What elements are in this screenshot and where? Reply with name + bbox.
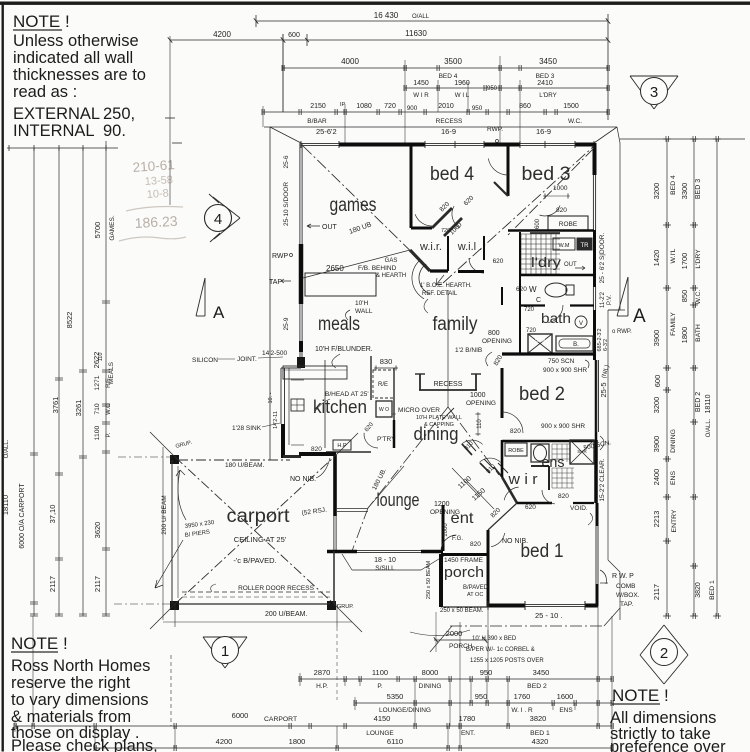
carport diagonal corner extensions [150, 432, 175, 457]
dim row 2150 1080 720 900 2010 950 860 1500 [263, 111, 608, 113]
carport beams [178, 459, 290, 461]
svg-text:1960: 1960 [454, 80, 470, 87]
wir diagonal corner wall [410, 250, 430, 271]
svg-text:950: 950 [472, 105, 483, 112]
svg-text:3200: 3200 [652, 183, 661, 200]
svg-text:820: 820 [510, 428, 521, 435]
svg-text:1255 x 1205 POSTS OVER: 1255 x 1205 POSTS OVER [470, 658, 544, 664]
svg-text:25-9: 25-9 [283, 317, 290, 330]
svg-text:BED 2: BED 2 [695, 392, 702, 412]
svg-text:P.: P. [106, 432, 112, 437]
svg-text:25-5: 25-5 [599, 382, 608, 397]
svg-text:1000: 1000 [553, 185, 568, 192]
svg-text:L'DRY: L'DRY [539, 92, 557, 99]
svg-text:720: 720 [524, 307, 535, 313]
svg-text:2400: 2400 [652, 469, 661, 486]
roller door recess [182, 591, 330, 593]
svg-text:1780: 1780 [459, 714, 476, 723]
kitchen bottom wall [299, 452, 336, 456]
svg-text:18 - 10: 18 - 10 [374, 557, 396, 564]
fblunder bench [283, 366, 347, 379]
svg-text:BED 1: BED 1 [530, 730, 550, 737]
bed1 bottom wall [488, 604, 525, 608]
svg-text:200 U/ BEAM: 200 U/ BEAM [161, 495, 168, 534]
svg-text:25-6: 25-6 [283, 155, 290, 168]
svg-text:ROBE: ROBE [508, 448, 524, 454]
svg-text:18110: 18110 [1, 495, 10, 515]
svg-text:w i r: w i r [507, 471, 537, 488]
bottom dim row4 [95, 747, 612, 749]
svg-text:250 x 50 BEAM.: 250 x 50 BEAM. [440, 608, 484, 614]
svg-text:NOTE !: NOTE ! [612, 686, 669, 705]
carport posts [170, 455, 179, 464]
svg-text:CEILING AT 25': CEILING AT 25' [234, 535, 287, 544]
svg-text:lounge: lounge [377, 490, 420, 510]
svg-text:11-2'2: 11-2'2 [600, 291, 606, 308]
right dims vertical lines [666, 139, 668, 616]
svg-text:1700: 1700 [680, 253, 689, 270]
svg-text:REF. DETAIL: REF. DETAIL [422, 291, 458, 297]
marker circle 1 [203, 636, 247, 638]
svg-text:850: 850 [680, 290, 689, 303]
svg-text:ENT.: ENT. [461, 730, 475, 737]
kitchen wall oven [376, 401, 392, 417]
kitchen bench and HP [324, 360, 326, 448]
svg-text:18110: 18110 [705, 394, 712, 413]
svg-text:860: 860 [519, 103, 531, 110]
svg-text:2117: 2117 [93, 576, 102, 592]
svg-text:4: 4 [214, 211, 222, 228]
right exterior wall [593, 143, 597, 175]
svg-text:OPENING: OPENING [466, 400, 496, 407]
svg-text:CARPORT: CARPORT [264, 716, 297, 723]
svg-text:186.23: 186.23 [134, 213, 178, 231]
svg-text:TAP.: TAP. [620, 601, 633, 608]
svg-text:R W. P: R W. P [612, 573, 634, 580]
wir walls [502, 477, 517, 503]
svg-text:O/ALL.: O/ALL. [4, 439, 10, 458]
svg-text:O/ALL.: O/ALL. [706, 418, 712, 437]
svg-text:37,10: 37,10 [48, 505, 57, 524]
wall under wir wil [448, 270, 484, 272]
svg-text:3900: 3900 [652, 436, 661, 453]
svg-text:F/B. BEHIND: F/B. BEHIND [358, 265, 397, 272]
wall games/bed4 [410, 146, 413, 228]
svg-text:830: 830 [380, 357, 393, 366]
svg-text:25-10 S/DOOR: 25-10 S/DOOR [283, 182, 290, 226]
svg-text:90.: 90. [103, 122, 126, 140]
wall wc/bath [520, 305, 594, 307]
svg-text:200 U/BEAM.: 200 U/BEAM. [265, 611, 307, 618]
ens shower [570, 440, 594, 464]
marker circle 2 [640, 625, 664, 655]
porch dim 2000 [434, 639, 487, 641]
dim row 4200 extension [170, 39, 283, 41]
bed2 door [502, 412, 523, 433]
svg-text:2650: 2650 [326, 264, 344, 273]
svg-text:l'dry: l'dry [531, 255, 561, 270]
svg-text:ENS: ENS [559, 707, 573, 714]
svg-text:GRUP.: GRUP. [337, 604, 354, 610]
silicon joint block [297, 357, 305, 368]
svg-text:Please check plans,: Please check plans, [11, 737, 158, 752]
dining lounge big diagonal [368, 407, 448, 508]
svg-text:DINING: DINING [670, 429, 677, 453]
svg-text:W.I'L: W.I'L [670, 248, 677, 263]
svg-text:3820: 3820 [530, 714, 547, 723]
top exterior wall [301, 142, 339, 144]
bottom vertical connectors [414, 679, 416, 726]
svg-text:1500: 1500 [563, 103, 579, 110]
svg-text:1' B.O.E. HEARTH.: 1' B.O.E. HEARTH. [420, 283, 472, 289]
svg-text:BED 4: BED 4 [439, 73, 458, 80]
right dims top line [620, 138, 745, 140]
svg-text:W I L: W I L [455, 92, 470, 99]
svg-text:10'H F/BLUNDER.: 10'H F/BLUNDER. [315, 346, 373, 353]
svg-text:16-9: 16-9 [441, 127, 456, 136]
svg-text:2213: 2213 [652, 511, 661, 528]
svg-text:600: 600 [653, 375, 662, 388]
svg-text:B.: B. [573, 342, 579, 348]
svg-text:W.O: W.O [106, 403, 112, 415]
svg-text:NO NIB.: NO NIB. [502, 538, 528, 545]
svg-text:Ross North Homes: Ross North Homes [11, 657, 150, 675]
svg-text:1271: 1271 [94, 375, 101, 390]
svg-text:1100: 1100 [372, 668, 388, 677]
carport eaves offset [162, 447, 164, 620]
svg-text:reserve the right: reserve the right [11, 674, 131, 692]
svg-text:1760: 1760 [514, 692, 531, 701]
carport connector verticals [174, 604, 176, 627]
svg-text:B/BAR: B/BAR [307, 118, 327, 125]
lounge west wall [333, 455, 337, 516]
svg-text:bath: bath [541, 311, 571, 326]
left exterior wall [299, 143, 301, 244]
svg-text:Unless otherwise: Unless otherwise [13, 32, 139, 50]
svg-text:620: 620 [525, 504, 536, 511]
svg-text:1000: 1000 [443, 523, 449, 537]
svg-text:720: 720 [526, 328, 537, 334]
svg-text:R/E: R/E [378, 382, 388, 388]
svg-text:FAMILY: FAMILY [670, 312, 677, 336]
svg-text:25 - 10 .: 25 - 10 . [535, 611, 563, 620]
svg-text:4320: 4320 [532, 737, 549, 746]
carport diagonals [175, 457, 334, 604]
ldry wm tr boxes [553, 238, 575, 250]
kitchen pantry [364, 433, 378, 448]
svg-text:720: 720 [441, 228, 450, 234]
svg-text:950: 950 [487, 86, 498, 92]
svg-text:1600: 1600 [557, 692, 574, 701]
svg-text:JOINT.: JOINT. [237, 356, 257, 363]
svg-text:TAP: TAP [269, 279, 282, 286]
svg-text:1080: 1080 [356, 103, 372, 110]
bed3 ldry diagonal [508, 148, 594, 235]
bed3 left wall [507, 146, 510, 196]
dim row 11630 [283, 39, 608, 41]
svg-text:750 SCN: 750 SCN [548, 358, 575, 365]
kitchen bay window [281, 367, 301, 369]
svg-text:1800: 1800 [680, 327, 689, 344]
svg-text:950: 950 [475, 692, 488, 701]
dim row 4000 3500 3450 [283, 67, 608, 69]
bottom dim row1 [300, 678, 612, 680]
svg-text:preference over: preference over [610, 738, 726, 752]
svg-text:1000: 1000 [470, 392, 486, 399]
svg-text:COMB: COMB [616, 583, 636, 590]
svg-text:5700: 5700 [93, 222, 102, 239]
svg-text:1800: 1800 [289, 737, 306, 746]
svg-text:B/PAVED.: B/PAVED. [463, 585, 490, 591]
svg-text:1'28 SINK: 1'28 SINK [232, 425, 262, 432]
svg-text:bed 3: bed 3 [522, 164, 571, 185]
bottom dim row2 [355, 702, 612, 704]
svg-text:820: 820 [558, 493, 569, 500]
svg-text:EXTERNAL: EXTERNAL [13, 105, 100, 123]
vertical connectors top dims [404, 60, 406, 143]
svg-text:VOID.: VOID. [570, 505, 588, 512]
svg-text:11630: 11630 [405, 29, 427, 38]
svg-text:3761: 3761 [51, 397, 60, 414]
svg-text:2150: 2150 [310, 103, 326, 110]
svg-text:S/SILL: S/SILL [375, 565, 395, 572]
bed1 walls [488, 503, 517, 530]
eaves outline right [617, 127, 620, 143]
svg-text:meals: meals [318, 314, 360, 335]
svg-text:8522: 8522 [65, 312, 74, 329]
svg-text:RECESS: RECESS [434, 381, 463, 388]
svg-text:LOUNGE/DINING: LOUNGE/DINING [379, 707, 431, 714]
pencil strokes [126, 207, 183, 212]
svg-text:games: games [330, 195, 377, 216]
svg-text:14'2-500: 14'2-500 [262, 350, 287, 357]
svg-text:w.i.l .: w.i.l . [457, 241, 482, 253]
games roof diagonal [303, 146, 428, 268]
svg-text:3620: 3620 [93, 522, 102, 539]
svg-text:820: 820 [470, 541, 481, 548]
ent walls [442, 505, 445, 551]
svg-text:bed 4: bed 4 [430, 164, 474, 185]
svg-text:250 x 50 BEAM: 250 x 50 BEAM [426, 560, 432, 599]
svg-text:16 430: 16 430 [374, 11, 399, 20]
svg-text:INTERNAL: INTERNAL [13, 122, 95, 140]
svg-text:DINING: DINING [419, 683, 442, 690]
section marker A left [204, 278, 206, 316]
bed4 bottom walls and wardrobe entry [411, 227, 432, 230]
svg-text:2: 2 [660, 645, 668, 662]
svg-text:900 x 900 SHR: 900 x 900 SHR [541, 423, 585, 430]
svg-text:1100: 1100 [94, 425, 101, 440]
svg-text:A: A [213, 303, 225, 322]
svg-text:3300: 3300 [680, 183, 689, 200]
svg-text:OPENING: OPENING [482, 338, 512, 345]
svg-text:BED 2: BED 2 [527, 683, 547, 690]
svg-text:2870: 2870 [314, 668, 331, 677]
svg-text:OUT: OUT [322, 224, 338, 231]
dim row 1450 1960 950 2410 [405, 87, 608, 89]
svg-text:2410: 2410 [537, 80, 553, 87]
svg-text:AT OC: AT OC [467, 592, 483, 598]
svg-text:14'2-11: 14'2-11 [273, 411, 279, 429]
left dims vertical lines [33, 148, 35, 616]
svg-text:3450: 3450 [533, 668, 550, 677]
svg-text:NOTE !: NOTE ! [13, 12, 70, 31]
svg-text:6000 O/A CARPORT: 6000 O/A CARPORT [19, 483, 26, 549]
svg-text:8000: 8000 [422, 668, 439, 677]
svg-text:NOTE !: NOTE ! [11, 634, 68, 653]
svg-text:kitchen: kitchen [313, 397, 367, 417]
svg-text:carport: carport [227, 506, 291, 527]
svg-text:25-6'2: 25-6'2 [316, 127, 337, 136]
svg-text:2117: 2117 [48, 576, 57, 592]
svg-text:10-8: 10-8 [146, 187, 169, 201]
svg-text:-'c B/PAVED.: -'c B/PAVED. [233, 556, 276, 565]
svg-text:1: 1 [221, 643, 229, 660]
lounge bottom wall [327, 550, 357, 554]
eaves outline top [264, 126, 617, 128]
svg-text:3450: 3450 [539, 57, 557, 66]
svg-text:10. -: 10. - [268, 392, 274, 403]
svg-text:GAS: GAS [385, 258, 398, 264]
svg-text:L'DRY: L'DRY [695, 249, 702, 269]
svg-text:720: 720 [384, 103, 396, 110]
svg-text:IP: IP [340, 102, 346, 108]
svg-text:4200: 4200 [213, 30, 231, 39]
svg-text:ROLLER DOOR RECESS: ROLLER DOOR RECESS [238, 585, 315, 592]
svg-text:indicated all wall: indicated all wall [13, 49, 133, 67]
svg-text:ent: ent [451, 510, 475, 527]
svg-text:820: 820 [556, 207, 567, 214]
svg-text:B/HEAD AT 25': B/HEAD AT 25' [325, 391, 369, 398]
svg-text:3: 3 [650, 84, 658, 101]
svg-text:H.P.: H.P. [316, 683, 328, 690]
svg-text:P.V.: P.V. [607, 295, 613, 305]
robe bed2 [505, 443, 527, 456]
svg-text:BED 3: BED 3 [695, 179, 702, 199]
svg-text:25 - 6'2 S|DOOR.: 25 - 6'2 S|DOOR. [599, 233, 606, 284]
svg-text:LOUNGE: LOUNGE [366, 730, 394, 737]
svg-text:250,: 250, [103, 105, 135, 123]
svg-text:BATH: BATH [695, 324, 702, 342]
left dims tick marks [30, 454, 38, 456]
svg-text:A: A [633, 306, 646, 327]
svg-text:porch: porch [444, 565, 484, 581]
svg-text:2010: 2010 [438, 103, 454, 110]
svg-text:SILICON: SILICON [192, 357, 218, 364]
svg-text:900: 900 [407, 105, 418, 112]
svg-text:600: 600 [288, 32, 300, 39]
hearth fireplace [305, 273, 376, 296]
svg-text:ENTRY: ENTRY [671, 509, 678, 532]
page border left [2, 2, 4, 752]
svg-text:6110: 6110 [387, 737, 403, 746]
bath fixtures shr and tub [528, 334, 552, 353]
svg-text:W/BOX.: W/BOX. [616, 592, 640, 599]
bed1 to dim connectors [597, 606, 599, 679]
svg-text:GAMES.: GAMES. [109, 215, 116, 240]
svg-text:820: 820 [311, 446, 322, 453]
svg-text:P.: P. [377, 683, 382, 690]
svg-text:BED 3: BED 3 [536, 73, 555, 80]
svg-text:900 x 900 SHR: 900 x 900 SHR [543, 367, 587, 374]
family bed2 wall [501, 287, 503, 305]
svg-text:MICRO OVER: MICRO OVER [398, 407, 440, 414]
svg-text:family: family [433, 314, 478, 335]
svg-text:ENS: ENS [670, 471, 677, 485]
top wall window dividers [300, 141, 302, 148]
svg-text:thicknesses are to: thicknesses are to [13, 66, 146, 84]
svg-text:710: 710 [94, 403, 101, 415]
family center line [447, 290, 449, 407]
left dims top tick row [7, 147, 118, 149]
svg-text:OUT: OUT [564, 262, 577, 268]
svg-text:SHR: SHR [535, 338, 546, 344]
svg-text:B/PER W/- 1c CORBEL &: B/PER W/- 1c CORBEL & [466, 647, 535, 653]
svg-text:4000: 4000 [341, 57, 359, 66]
ldry [508, 229, 594, 232]
dim row 16430 overall [256, 20, 608, 22]
svg-text:RWP: RWP [272, 253, 289, 260]
bottom dim row3 [15, 725, 612, 727]
svg-text:RWP.: RWP. [487, 126, 503, 133]
dining bay corner [442, 408, 454, 420]
svg-text:W. I . R: W. I . R [511, 707, 533, 714]
svg-text:W O: W O [379, 407, 389, 413]
recess niche [419, 374, 421, 390]
svg-text:620: 620 [493, 258, 504, 265]
dining bay diagonal wall [462, 444, 472, 455]
svg-text:5350: 5350 [387, 692, 404, 701]
svg-text:& CAPPING: & CAPPING [424, 422, 454, 428]
svg-text:F.G.: F.G. [452, 536, 463, 542]
marker circle 3 [630, 75, 678, 77]
section marker A right [608, 309, 625, 311]
svg-text:4200: 4200 [216, 737, 233, 746]
svg-text:180 U/BEAM.: 180 U/BEAM. [225, 462, 265, 469]
svg-text:620: 620 [516, 286, 527, 293]
svg-text:1'2 B/NIB: 1'2 B/NIB [455, 347, 482, 354]
svg-text:110: 110 [98, 353, 104, 362]
svg-text:W.C.: W.C. [568, 118, 582, 125]
svg-text:TR: TR [581, 243, 590, 249]
svg-text:ROBE: ROBE [559, 221, 578, 228]
svg-text:read as :: read as : [13, 83, 77, 101]
svg-text:& HEARTH: & HEARTH [376, 273, 406, 279]
svg-text:3200: 3200 [652, 397, 661, 414]
svg-text:bed 2: bed 2 [519, 384, 565, 405]
svg-text:BED 4: BED 4 [670, 175, 677, 195]
svg-text:15-2'2 CLEAR.: 15-2'2 CLEAR. [599, 458, 606, 501]
svg-text:RECESS: RECESS [436, 118, 463, 125]
svg-text:W I R: W I R [413, 92, 429, 99]
svg-text:1450 FRAME: 1450 FRAME [444, 557, 484, 564]
ens top wall [502, 440, 594, 443]
svg-text:C: C [536, 297, 541, 304]
svg-text:o RWP.: o RWP. [612, 329, 632, 335]
svg-text:3900: 3900 [652, 330, 661, 347]
page border top [0, 2, 750, 5]
svg-text:W.M: W.M [559, 243, 570, 249]
right dims tick rows [663, 138, 671, 140]
svg-text:BED 1: BED 1 [709, 580, 716, 600]
svg-text:600: 600 [535, 218, 541, 229]
svg-text:210-61: 210-61 [132, 157, 175, 175]
svg-text:13-58: 13-58 [144, 174, 173, 188]
eaves outline bottom [450, 625, 604, 627]
svg-text:16-9: 16-9 [536, 127, 551, 136]
svg-text:6000: 6000 [232, 711, 249, 720]
svg-text:O/ALL: O/ALL [412, 14, 430, 20]
